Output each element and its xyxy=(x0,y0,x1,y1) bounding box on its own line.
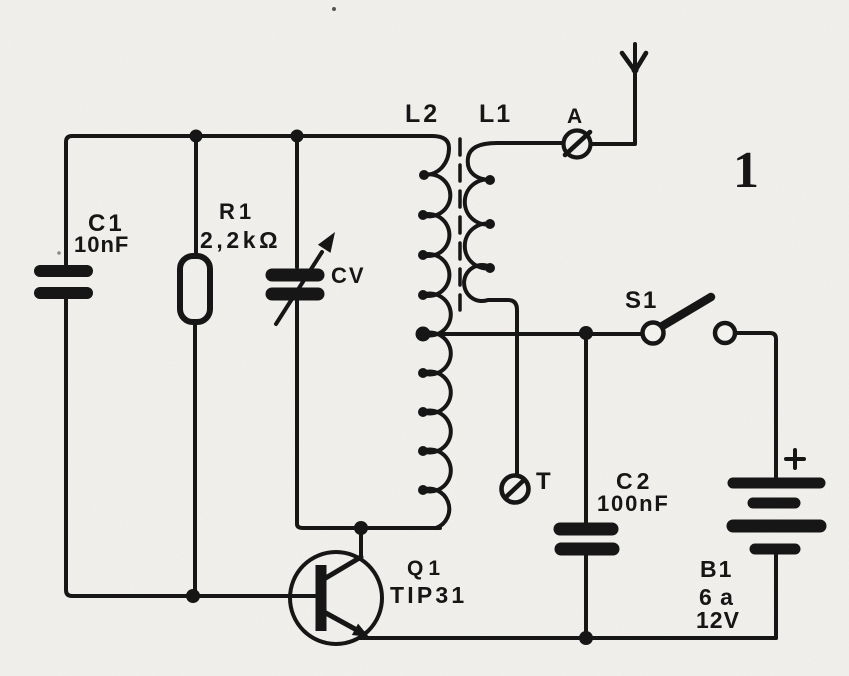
svg-text:R1: R1 xyxy=(219,199,255,224)
wire tap rail xyxy=(423,332,642,336)
coupling dashed line xyxy=(458,139,462,310)
resistor R1 xyxy=(194,136,198,256)
transistor Q1 xyxy=(359,528,363,557)
junction dot C2 top xyxy=(579,326,593,340)
svg-text:TIP31: TIP31 xyxy=(390,582,467,608)
svg-text:A: A xyxy=(567,105,582,128)
junction dot R1 top xyxy=(190,130,203,143)
capacitor CV xyxy=(295,136,299,267)
svg-text:2,2kΩ: 2,2kΩ xyxy=(200,227,281,253)
inductor L2 xyxy=(422,136,451,528)
speck xyxy=(332,7,336,11)
svg-text:100nF: 100nF xyxy=(597,491,670,516)
inductor L1 xyxy=(464,143,562,474)
svg-text:B1: B1 xyxy=(700,556,733,582)
svg-text:L2: L2 xyxy=(405,100,440,128)
wire S1 to battery xyxy=(735,333,776,477)
terminal A xyxy=(564,131,591,158)
junction dot collector xyxy=(354,521,368,535)
wire top rail xyxy=(66,136,432,265)
capacitor C2 xyxy=(584,333,588,522)
junction dot bottom xyxy=(579,631,593,645)
junction dot base xyxy=(186,589,200,603)
terminal T xyxy=(502,476,529,503)
switch S1 xyxy=(659,297,711,328)
svg-text:10nF: 10nF xyxy=(74,232,129,257)
battery B1 xyxy=(733,483,820,549)
wire bottom rail xyxy=(359,636,776,640)
junction dot L2 tap xyxy=(416,327,431,342)
svg-text:12V: 12V xyxy=(696,607,740,633)
battery plus sign xyxy=(786,450,804,468)
svg-text:L1: L1 xyxy=(479,100,512,128)
junction dot CV top xyxy=(291,130,304,143)
svg-text:S1: S1 xyxy=(625,287,658,314)
capacitor C1 xyxy=(40,271,87,293)
wire left column lower xyxy=(66,299,316,596)
antenna xyxy=(622,53,635,71)
speck xyxy=(57,251,61,255)
svg-text:1: 1 xyxy=(733,142,759,199)
wire A to antenna xyxy=(591,44,635,144)
svg-text:T: T xyxy=(536,468,551,495)
wire battery to bottom rail xyxy=(774,555,778,638)
svg-text:Q1: Q1 xyxy=(407,557,445,580)
svg-text:CV: CV xyxy=(331,263,366,288)
